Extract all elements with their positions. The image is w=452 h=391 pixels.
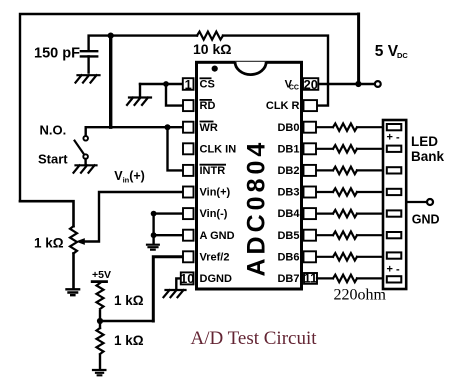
LED 1 (387, 124, 402, 130)
pin box RD (183, 100, 194, 111)
node junction RC (108, 33, 114, 39)
svg-text:(+): (+) (129, 169, 145, 183)
overline INTR (200, 164, 227, 166)
svg-text:DB1: DB1 (277, 143, 299, 155)
LED 7 (387, 252, 402, 258)
wire WR rail with switch (86, 126, 183, 128)
LED 6 (387, 232, 402, 238)
node junction CS/RD (163, 81, 169, 87)
wire DB3 + resistor (317, 188, 382, 195)
wire DB1 + resistor (317, 145, 382, 152)
svg-text:ADC0804: ADC0804 (243, 139, 271, 277)
pin box 1 CS (183, 78, 194, 90)
svg-text:DB0: DB0 (277, 122, 299, 134)
svg-text:N.O.: N.O. (40, 123, 67, 138)
svg-text:1 kΩ: 1 kΩ (114, 293, 144, 308)
ground chassis at DGND (164, 290, 186, 297)
wire DB2 + resistor (317, 167, 382, 174)
svg-text:CC: CC (289, 85, 299, 92)
chip right pin labels (266, 79, 300, 285)
svg-text:1: 1 (185, 77, 192, 92)
svg-text:DC: DC (397, 51, 408, 60)
pot wiper arrowhead (76, 238, 85, 245)
pin box DB6 (304, 251, 317, 262)
pin numbers (180, 77, 318, 286)
wire to bottom ground (99, 355, 101, 369)
wire Vin(-) (154, 212, 183, 214)
svg-text:A GND: A GND (200, 230, 235, 242)
pin box DB5 (304, 230, 317, 241)
IC U1 ADC0804 body (197, 62, 302, 289)
svg-text:RD: RD (200, 100, 216, 112)
pin box DB1 (304, 143, 317, 154)
overline RD (200, 99, 213, 101)
wire RC top rail (cap to 10k to CLK R) (89, 36, 197, 50)
LED bank box (383, 120, 406, 289)
LED 4 (387, 189, 402, 195)
wire switch to ground (84, 159, 86, 165)
LED 5 (387, 210, 402, 216)
wire CS pin1 (140, 83, 183, 85)
wire pot bottom (72, 253, 75, 288)
pin box INTR (183, 165, 194, 176)
pin box CLK IN (183, 143, 194, 154)
overline CS (200, 77, 212, 79)
capacitor C 150pF plates (81, 51, 97, 56)
svg-text:DGND: DGND (200, 273, 232, 285)
LED 8 (387, 276, 402, 282)
pin box CLK R (304, 100, 318, 111)
svg-text:+ -: + - (387, 264, 400, 276)
terminal GND open circle (427, 199, 433, 205)
svg-text:INTR: INTR (200, 165, 226, 177)
svg-text:11: 11 (304, 271, 318, 286)
ground earth at pot (65, 289, 80, 295)
LED 3 (387, 167, 402, 173)
wire DB7 + resistor (317, 275, 382, 282)
svg-text:220ohm: 220ohm (334, 287, 387, 304)
wire CS ground drop (139, 84, 141, 97)
pin box DB3 (304, 187, 317, 198)
node junction WR/INTR (165, 124, 171, 130)
LED 2 (387, 146, 402, 152)
resistor R 10k zigzag (197, 32, 223, 40)
svg-text:WR: WR (200, 122, 218, 134)
svg-text:150 pF: 150 pF (34, 46, 80, 62)
wire divider junction to Vref/2 (100, 320, 153, 323)
wire DB0 + resistor (317, 123, 382, 130)
svg-text:DB5: DB5 (277, 230, 299, 242)
pin box DB0 (304, 122, 317, 133)
svg-text:LED: LED (411, 134, 438, 149)
ground chassis at cap (76, 75, 100, 82)
svg-text:1 kΩ: 1 kΩ (114, 333, 144, 348)
switch N.O. top contact (83, 136, 88, 141)
power +5V rail bar (91, 280, 108, 283)
wire Vin(+) to pot wiper (84, 192, 183, 242)
left pin boxes (181, 78, 194, 284)
overline WR (200, 121, 214, 123)
svg-text:+5V: +5V (92, 269, 111, 281)
svg-text:CLK R: CLK R (266, 100, 300, 112)
pin box A GND (183, 230, 194, 241)
wire A GND ground stub (152, 235, 154, 243)
ground chassis at switch (74, 165, 97, 172)
wire 5V vertical drop (357, 14, 360, 84)
svg-text:Vin(-): Vin(-) (200, 208, 228, 220)
pin box DB2 (304, 165, 317, 176)
node junction A GND (151, 232, 157, 238)
pin box Vref/2 (183, 251, 194, 262)
wire Vin(-) to A GND (152, 214, 154, 236)
svg-text:10: 10 (180, 271, 194, 286)
pin box DB4 (304, 208, 317, 219)
svg-text:Bank: Bank (411, 149, 445, 164)
ground chassis at CS (127, 98, 151, 105)
IC pin1 dot (212, 66, 218, 72)
svg-text:Vref/2: Vref/2 (200, 251, 230, 263)
wire divider middle (99, 311, 101, 328)
wire DB6 + resistor (317, 253, 382, 260)
svg-text:GND: GND (412, 213, 440, 227)
data bus resistors 220 ohm (317, 123, 382, 282)
right pin boxes (303, 78, 318, 284)
pin box 10 DGND (181, 272, 194, 284)
ground earth at divider (92, 370, 107, 375)
svg-text:5 V: 5 V (375, 43, 399, 60)
wire DB4 + resistor (317, 210, 382, 217)
svg-text:20: 20 (304, 77, 318, 92)
switch bottom contact (83, 154, 88, 159)
svg-text:10 kΩ: 10 kΩ (193, 41, 231, 57)
svg-text:DB2: DB2 (277, 165, 299, 177)
wire branch to RD (166, 84, 183, 106)
wire switch stub (84, 127, 86, 136)
wire cap bottom (87, 56, 89, 72)
svg-text:CS: CS (200, 79, 215, 91)
svg-text:DB6: DB6 (277, 251, 299, 263)
svg-text:+ -: + - (387, 132, 400, 144)
svg-text:DB7: DB7 (277, 273, 299, 285)
svg-text:1 kΩ: 1 kΩ (34, 236, 64, 251)
wire 10k to CLK R (223, 36, 328, 106)
svg-text:CLK IN: CLK IN (200, 143, 237, 155)
svg-text:Start: Start (38, 152, 68, 167)
wire Vcc pin20 to 5V terminal (319, 83, 375, 86)
pin box Vin(-) (183, 208, 194, 219)
pin box 20 Vcc (303, 78, 318, 90)
wire pot top segment (20, 201, 74, 226)
ground earth at A GND (146, 245, 160, 250)
svg-text:DB4: DB4 (277, 208, 300, 220)
node junction divider (97, 318, 103, 324)
pin box WR (183, 122, 194, 133)
potentiometer R 1k zigzag (70, 226, 77, 253)
wire top rail from pot loop (20, 14, 359, 201)
wire A GND (154, 234, 183, 236)
node junction Vin(-) (151, 211, 157, 217)
node junction at 5V (355, 81, 361, 87)
switch blade (75, 141, 85, 155)
wire branch to INTR (168, 127, 184, 170)
chip left pin labels (200, 78, 237, 285)
IC notch (235, 62, 266, 75)
svg-text:Vin(+): Vin(+) (200, 187, 231, 199)
wire DB5 + resistor (317, 232, 382, 239)
svg-text:A/D Test Circuit: A/D Test Circuit (191, 328, 318, 349)
wire GND stub (406, 201, 427, 203)
LED bank (383, 120, 406, 289)
wire DGND to ground (176, 278, 180, 289)
resistor R 1k lower zigzag (97, 328, 104, 354)
wire Vref/2 rail (153, 257, 183, 321)
terminal 5V open circle (375, 81, 381, 87)
svg-text:DB3: DB3 (277, 187, 299, 199)
resistor R 1k upper zigzag (97, 283, 104, 309)
pin box 11 DB7 (304, 273, 317, 284)
pin box Vin(+) (183, 187, 194, 198)
wire thick vertical junction to WR (109, 36, 112, 128)
